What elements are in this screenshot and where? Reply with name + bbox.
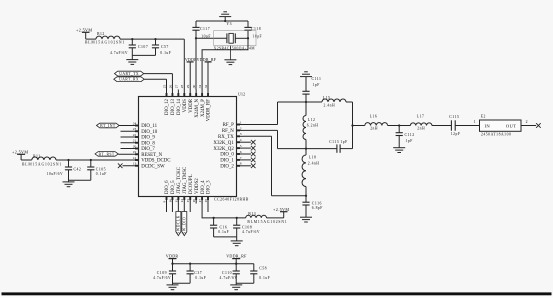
svg-text:BLM15AG102SN1: BLM15AG102SN1 xyxy=(247,220,287,224)
svg-text:B11: B11 xyxy=(33,154,41,158)
svg-text:C113 1pF: C113 1pF xyxy=(329,140,348,144)
svg-text:C108: C108 xyxy=(242,226,252,230)
svg-text:13: 13 xyxy=(133,162,137,166)
svg-text:VDDS: VDDS xyxy=(183,99,188,113)
svg-text:C105: C105 xyxy=(96,167,106,171)
svg-text:29: 29 xyxy=(186,85,190,89)
svg-text:2nH: 2nH xyxy=(417,127,425,131)
svg-text:16: 16 xyxy=(192,199,196,203)
svg-text:20: 20 xyxy=(133,144,137,148)
svg-text:Y3: Y3 xyxy=(226,22,232,26)
svg-text:+2.5VM: +2.5VM xyxy=(12,149,28,154)
svg-text:21: 21 xyxy=(133,139,137,143)
svg-text:VDDR: VDDR xyxy=(185,57,197,62)
svg-text:DIO_12: DIO_12 xyxy=(165,98,170,115)
svg-text:RX_TX: RX_TX xyxy=(218,135,234,140)
svg-text:C111: C111 xyxy=(312,77,322,81)
svg-text:DIO_6: DIO_6 xyxy=(165,180,170,194)
svg-text:2nH: 2nH xyxy=(370,127,378,131)
svg-text:0.1uF: 0.1uF xyxy=(259,276,270,280)
svg-text:VDDR_RF: VDDR_RF xyxy=(197,57,217,62)
svg-text:DIO_7: DIO_7 xyxy=(141,147,155,152)
svg-text:8: 8 xyxy=(240,162,242,166)
svg-text:C115: C115 xyxy=(449,115,459,119)
svg-text:4.7uF/6V: 4.7uF/6V xyxy=(110,51,128,55)
svg-text:SW_DIO: SW_DIO xyxy=(183,217,187,234)
svg-text:BLM15AG102SN1: BLM15AG102SN1 xyxy=(22,163,62,167)
svg-text:26: 26 xyxy=(168,85,172,89)
svg-text:C118: C118 xyxy=(251,27,261,31)
svg-text:JTAG_TCKC: JTAG_TCKC xyxy=(177,167,182,194)
svg-text:X24M_N: X24M_N xyxy=(195,99,200,118)
svg-text:BT_INT: BT_INT xyxy=(100,124,116,128)
svg-text:DIO_11: DIO_11 xyxy=(141,124,157,129)
svg-text:CC2640F128RHB: CC2640F128RHB xyxy=(214,197,249,201)
svg-text:C37: C37 xyxy=(194,271,202,275)
svg-text:31: 31 xyxy=(198,85,202,89)
svg-text:2: 2 xyxy=(240,126,242,130)
svg-text:18: 18 xyxy=(204,199,208,203)
svg-text:10: 10 xyxy=(168,199,172,203)
svg-text:6.2nH: 6.2nH xyxy=(307,123,319,127)
svg-text:B13: B13 xyxy=(248,212,256,216)
svg-text:DIO_14: DIO_14 xyxy=(177,98,182,115)
svg-text:X32K_Q1: X32K_Q1 xyxy=(213,141,234,146)
svg-text:0.1uF: 0.1uF xyxy=(195,276,206,280)
svg-text:VDDR_RF: VDDR_RF xyxy=(207,99,212,122)
svg-text:4.7uF/6V: 4.7uF/6V xyxy=(220,276,238,280)
svg-text:11: 11 xyxy=(174,199,178,203)
svg-text:2: 2 xyxy=(526,120,528,124)
svg-text:C57: C57 xyxy=(161,45,169,49)
svg-text:17: 17 xyxy=(198,199,202,203)
svg-text:B12: B12 xyxy=(97,32,105,36)
svg-text:DIO_1: DIO_1 xyxy=(220,159,234,164)
svg-text:27: 27 xyxy=(174,85,178,89)
svg-text:L18: L18 xyxy=(309,156,317,160)
svg-text:0.1uF: 0.1uF xyxy=(160,51,171,55)
svg-text:DIO_9: DIO_9 xyxy=(141,136,155,141)
svg-text:DIO_0: DIO_0 xyxy=(220,153,234,158)
svg-text:1: 1 xyxy=(240,120,242,124)
svg-text:IN: IN xyxy=(485,124,491,129)
svg-text:4.7uF/6V: 4.7uF/6V xyxy=(153,276,171,280)
svg-text:DCOUPL: DCOUPL xyxy=(189,174,194,194)
svg-text:10pF: 10pF xyxy=(253,34,263,38)
svg-text:1: 1 xyxy=(474,120,476,124)
svg-text:5: 5 xyxy=(240,144,242,148)
svg-text:VDDR: VDDR xyxy=(189,98,194,113)
svg-text:X32K_Q2: X32K_Q2 xyxy=(213,147,234,152)
svg-text:E2: E2 xyxy=(481,114,486,118)
svg-text:L16: L16 xyxy=(370,114,378,118)
svg-text:2450AT18A100: 2450AT18A100 xyxy=(481,133,511,137)
svg-text:4: 4 xyxy=(240,138,242,142)
svg-text:BT_RST: BT_RST xyxy=(99,152,115,156)
svg-text:12pF: 12pF xyxy=(451,132,461,136)
svg-text:7: 7 xyxy=(240,156,242,160)
svg-text:RESET_N: RESET_N xyxy=(141,153,162,158)
svg-text:DIO_3: DIO_3 xyxy=(207,180,212,194)
svg-text:2.4nH: 2.4nH xyxy=(324,104,336,108)
svg-text:24: 24 xyxy=(133,121,137,125)
svg-text:3: 3 xyxy=(240,132,242,136)
svg-text:DIO_4: DIO_4 xyxy=(201,180,206,194)
svg-text:DIO_5: DIO_5 xyxy=(171,180,176,194)
svg-text:6.8pF: 6.8pF xyxy=(312,206,323,210)
svg-text:14: 14 xyxy=(180,199,184,203)
svg-text:+2.5VM: +2.5VM xyxy=(76,27,92,32)
svg-text:0.1uF: 0.1uF xyxy=(96,172,107,176)
svg-text:DIO_10: DIO_10 xyxy=(141,130,158,135)
svg-text:C109: C109 xyxy=(157,271,167,275)
svg-text:+2.5VM: +2.5VM xyxy=(273,207,289,212)
svg-text:UART_TX: UART_TX xyxy=(119,72,139,76)
svg-text:19: 19 xyxy=(133,150,137,154)
svg-text:12: 12 xyxy=(133,156,137,160)
svg-text:RF_N: RF_N xyxy=(222,129,234,134)
svg-text:DIO_13: DIO_13 xyxy=(171,98,176,115)
svg-text:10uF/6V: 10uF/6V xyxy=(47,172,64,176)
svg-text:UART_RX: UART_RX xyxy=(119,78,139,82)
svg-text:32: 32 xyxy=(204,85,208,89)
svg-text:VDDS_DCDC: VDDS_DCDC xyxy=(141,159,170,164)
svg-text:L12: L12 xyxy=(308,118,316,122)
svg-text:OUT: OUT xyxy=(506,124,517,129)
svg-text:1pF: 1pF xyxy=(313,83,320,87)
svg-text:RF_P: RF_P xyxy=(223,123,234,128)
svg-text:28: 28 xyxy=(180,85,184,89)
svg-text:C58: C58 xyxy=(259,266,267,270)
svg-text:2.4nH: 2.4nH xyxy=(308,161,320,165)
svg-text:VDDR: VDDR xyxy=(166,254,179,259)
svg-text:6: 6 xyxy=(240,150,242,154)
svg-text:VDDS2: VDDS2 xyxy=(195,178,200,194)
svg-text:4.7uF/6V: 4.7uF/6V xyxy=(242,230,260,234)
svg-text:C117: C117 xyxy=(200,27,210,31)
svg-text:C42: C42 xyxy=(74,167,82,171)
svg-text:C112: C112 xyxy=(405,133,415,137)
svg-text:C16: C16 xyxy=(220,226,228,230)
svg-text:DIO_8: DIO_8 xyxy=(141,141,155,146)
svg-text:SWDCLK: SWDCLK xyxy=(177,215,181,234)
svg-text:L15: L15 xyxy=(323,96,331,100)
svg-text:BLM15AG102SN1: BLM15AG102SN1 xyxy=(85,40,125,44)
svg-text:30: 30 xyxy=(192,85,196,89)
svg-text:C116: C116 xyxy=(312,202,322,206)
svg-text:C110: C110 xyxy=(222,271,232,275)
svg-text:C107: C107 xyxy=(138,45,148,49)
svg-text:JTAG_TMSC: JTAG_TMSC xyxy=(183,167,188,194)
svg-text:22: 22 xyxy=(133,133,137,137)
svg-text:1pF: 1pF xyxy=(406,139,413,143)
svg-text:25: 25 xyxy=(162,85,166,89)
svg-text:L17: L17 xyxy=(417,114,425,118)
svg-text:0.1uF: 0.1uF xyxy=(218,230,229,234)
svg-text:DCDC_SW: DCDC_SW xyxy=(141,164,165,169)
svg-text:9: 9 xyxy=(162,201,166,203)
svg-text:VDDR_RF: VDDR_RF xyxy=(226,254,247,259)
svg-text:X24M_P: X24M_P xyxy=(201,99,206,117)
svg-text:23: 23 xyxy=(133,127,137,131)
svg-text:15: 15 xyxy=(186,199,190,203)
svg-text:U12: U12 xyxy=(238,93,245,97)
svg-text:DIO_2: DIO_2 xyxy=(220,165,234,170)
